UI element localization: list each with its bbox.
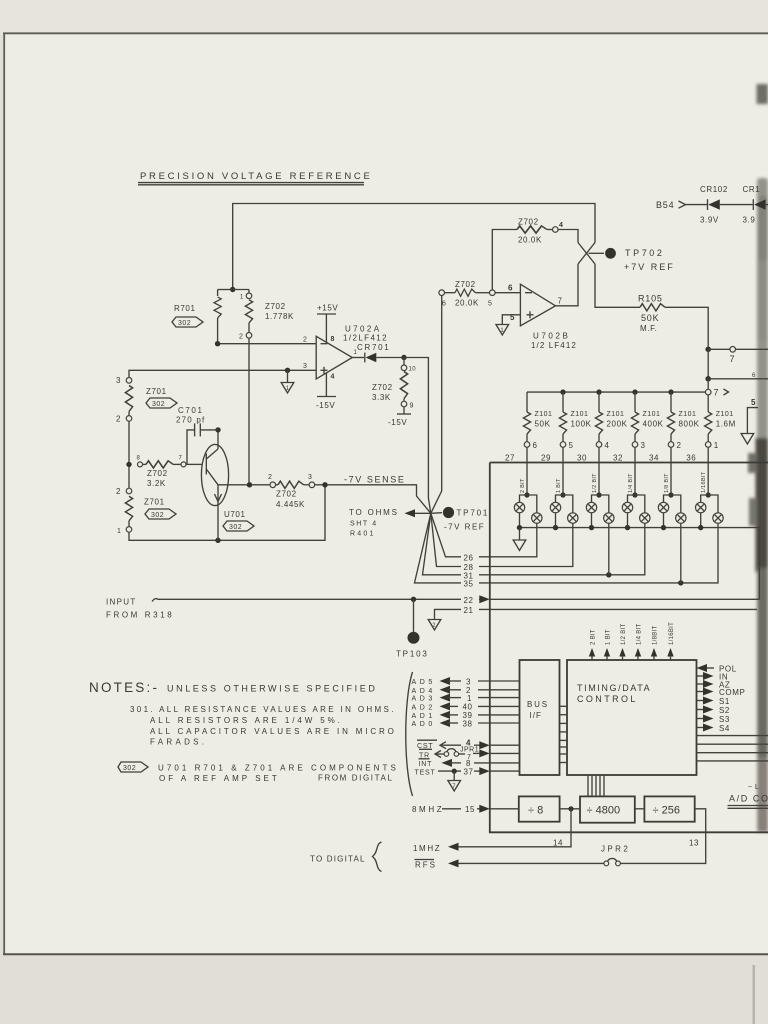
resistor Z101 1.6M	[707, 395, 709, 412]
junction node ch36	[706, 492, 711, 497]
svg-text:COMP: COMP	[719, 688, 745, 697]
pin COMP	[697, 691, 707, 693]
svg-text:S4: S4	[719, 724, 730, 733]
output bus lines right	[697, 735, 768, 737]
wire into box pin 29	[562, 447, 564, 495]
-15V below 3.3K	[403, 407, 405, 414]
svg-text:U701: U701	[224, 510, 246, 519]
svg-text:7: 7	[179, 456, 183, 462]
switch pair 400K	[628, 495, 636, 502]
op-amp U702B	[520, 284, 555, 326]
svg-text:1 BIT: 1 BIT	[556, 478, 562, 493]
node on plus input	[285, 368, 290, 373]
svg-text:Z701: Z701	[144, 498, 165, 507]
svg-text:8: 8	[137, 456, 141, 462]
svg-text:Z101: Z101	[679, 411, 697, 418]
svg-text:38: 38	[463, 719, 473, 728]
switch pair 100K	[556, 495, 564, 502]
flag 302 R701	[172, 317, 203, 327]
svg-text:÷ 256: ÷ 256	[653, 805, 680, 817]
svg-text:35: 35	[464, 579, 474, 588]
svg-text:~ L: ~ L	[748, 784, 759, 791]
svg-text:1: 1	[467, 694, 472, 703]
svg-text:7: 7	[452, 784, 456, 790]
svg-text:7: 7	[730, 354, 736, 364]
resistor Z101 800K	[670, 392, 672, 412]
svg-text:NOTES:-: NOTES:-	[89, 680, 159, 695]
pin 8 +15V U702A	[325, 314, 327, 343]
svg-text:1 BIT: 1 BIT	[606, 629, 612, 645]
svg-text:200K: 200K	[607, 420, 628, 429]
transistor U701	[201, 444, 228, 505]
wire top loop from R701 node to TP702	[233, 204, 595, 290]
right edge scan band	[748, 84, 768, 832]
svg-text:FROM R318: FROM R318	[106, 611, 174, 620]
svg-text:7: 7	[558, 297, 563, 306]
resistor Z101 100K	[562, 392, 564, 412]
wire into box pin 36	[707, 447, 709, 495]
svg-text:JPR2: JPR2	[601, 845, 630, 854]
svg-text:2: 2	[239, 334, 243, 341]
svg-text:1: 1	[240, 295, 244, 301]
wire -7V SENSE	[315, 485, 431, 514]
wire into box pin 27	[526, 447, 528, 495]
node junction R701 top	[230, 287, 235, 292]
svg-text:S3: S3	[719, 715, 730, 724]
resistor Z101 400K	[634, 392, 636, 412]
wire right at 378.8	[708, 378, 768, 380]
TIMING/DATA CONTROL box	[567, 660, 697, 775]
svg-text:+7V REF: +7V REF	[624, 262, 675, 272]
svg-text:CR102: CR102	[700, 185, 728, 194]
svg-text:8: 8	[331, 336, 335, 343]
brace FROM DIGITAL	[406, 672, 413, 796]
big box outline	[490, 462, 768, 464]
svg-text:400K: 400K	[643, 420, 664, 429]
junction node ch32	[632, 492, 637, 497]
svg-text:Z101: Z101	[535, 411, 553, 418]
svg-text:2: 2	[432, 623, 436, 629]
wire minus input U702A	[218, 343, 317, 345]
junction node ch34	[668, 492, 673, 497]
svg-text:34: 34	[649, 454, 659, 463]
svg-text:1/16BIT: 1/16BIT	[669, 622, 675, 645]
wire into box pin 32	[634, 447, 636, 495]
svg-text:-7V REF: -7V REF	[444, 523, 485, 532]
svg-text:÷ 8: ÷ 8	[528, 805, 543, 817]
fan wire to line 28	[431, 513, 461, 566]
svg-text:36: 36	[686, 454, 696, 463]
svg-text:FROM DIGITAL: FROM DIGITAL	[318, 774, 394, 783]
svg-text:3.2K: 3.2K	[147, 479, 166, 488]
svg-text:-15V: -15V	[316, 401, 335, 410]
wire rail down	[128, 421, 130, 488]
wire div4800 to div256	[635, 808, 645, 810]
switch pair 50K	[520, 495, 528, 502]
svg-text:5: 5	[488, 301, 492, 308]
wire into box pin 34	[670, 447, 672, 495]
svg-text:JPR1: JPR1	[460, 747, 479, 754]
diode CR701	[364, 353, 366, 363]
svg-text:CONTROL: CONTROL	[577, 694, 638, 704]
svg-text:1/2 BIT: 1/2 BIT	[621, 624, 627, 645]
svg-text:302: 302	[123, 765, 136, 772]
svg-text:3.3K: 3.3K	[372, 393, 391, 402]
ground on switch bus	[519, 528, 521, 540]
wire RFS output pin 13 via jumper JPR2	[621, 809, 706, 864]
resistor Z702 3.2K row	[138, 462, 143, 467]
divider by 256 box	[644, 796, 694, 821]
svg-text:4: 4	[605, 441, 610, 450]
svg-text:Z702: Z702	[147, 469, 168, 478]
svg-text:TIMING/DATA: TIMING/DATA	[577, 683, 651, 693]
svg-text:7: 7	[714, 388, 720, 398]
svg-text:29: 29	[541, 454, 551, 463]
pin IN	[697, 675, 707, 677]
junction node ch29	[560, 492, 565, 497]
svg-text:32: 32	[613, 454, 623, 463]
svg-text:Z101: Z101	[643, 411, 661, 418]
svg-text:5: 5	[751, 398, 756, 407]
svg-text:6: 6	[752, 373, 756, 379]
svg-text:2: 2	[677, 441, 682, 450]
svg-text:6: 6	[533, 441, 538, 450]
svg-text:RFS: RFS	[415, 861, 437, 870]
ground below plus input	[287, 370, 289, 382]
junction node ch30	[596, 492, 601, 497]
resistor Z702 20.0K input	[439, 290, 445, 296]
svg-text:Z702: Z702	[265, 302, 286, 311]
svg-text:PRECISION VOLTAGE REFERENCE: PRECISION VOLTAGE REFERENCE	[140, 171, 373, 182]
pin AZ	[697, 683, 707, 685]
svg-text:1/2 LF412: 1/2 LF412	[531, 341, 577, 350]
switch pair 200K	[592, 495, 600, 502]
svg-text:OF A REF AMP SET: OF A REF AMP SET	[159, 774, 280, 783]
svg-text:U702A: U702A	[345, 325, 381, 334]
svg-text:4: 4	[559, 222, 563, 229]
wire pin5 to ground	[502, 315, 520, 325]
svg-text:1: 1	[117, 528, 121, 535]
svg-text:TP702: TP702	[625, 248, 665, 258]
flag 302 Z701 lower	[145, 509, 176, 519]
flag 302 Z701 upper	[146, 398, 177, 408]
wire U702A output	[352, 357, 364, 359]
pin 4 -15V U702A	[325, 373, 327, 397]
pin S1	[697, 700, 707, 702]
wire plus input U702A	[130, 369, 317, 371]
svg-text:5: 5	[569, 441, 574, 450]
svg-text:30: 30	[577, 454, 587, 463]
svg-text:AD2: AD2	[412, 704, 436, 711]
svg-text:50K: 50K	[641, 313, 659, 323]
svg-text:Z101: Z101	[716, 411, 734, 418]
svg-text:3: 3	[641, 441, 646, 450]
resistor Z702 3.3K	[403, 358, 405, 366]
svg-text:800K: 800K	[679, 420, 700, 429]
wire emitter row	[218, 484, 270, 486]
wire div8 to div4800	[560, 808, 580, 810]
svg-text:3.9V: 3.9V	[700, 216, 719, 225]
svg-text:3: 3	[303, 363, 307, 370]
pin S4	[697, 727, 707, 729]
svg-text:AD1: AD1	[412, 713, 436, 720]
svg-text:CR701: CR701	[357, 343, 390, 352]
node R105 out lower	[707, 349, 709, 379]
svg-text:302: 302	[178, 320, 191, 327]
svg-text:R401: R401	[350, 531, 376, 538]
svg-text:1: 1	[286, 386, 290, 392]
svg-text:2: 2	[268, 474, 272, 481]
resistor R701	[217, 290, 219, 297]
svg-text:Z101: Z101	[607, 411, 625, 418]
svg-text:INPUT: INPUT	[106, 598, 137, 607]
svg-text:FARADS.: FARADS.	[150, 738, 207, 747]
wire INPUT FROM R318 / net 22	[152, 599, 461, 602]
svg-text:÷ 4800: ÷ 4800	[587, 805, 621, 817]
switch pair 1.6M	[701, 495, 709, 502]
svg-text:100K: 100K	[571, 420, 592, 429]
svg-text:R701: R701	[174, 304, 196, 313]
svg-text:1/8BIT: 1/8BIT	[653, 625, 659, 645]
svg-text:A/D CO: A/D CO	[729, 794, 768, 804]
svg-text:BUS: BUS	[527, 700, 549, 709]
svg-text:TO OHMS: TO OHMS	[349, 508, 399, 517]
svg-text:R105: R105	[638, 294, 663, 304]
svg-text:3: 3	[466, 677, 471, 686]
svg-text:6: 6	[508, 284, 513, 293]
wire X down to output	[556, 264, 579, 306]
pin POL	[704, 667, 714, 669]
svg-text:B54: B54	[656, 200, 674, 210]
svg-text:27: 27	[505, 454, 515, 463]
node R105 out upper	[705, 347, 711, 353]
wire node to R701 top	[218, 289, 233, 291]
svg-text:Z702: Z702	[276, 490, 297, 499]
svg-text:Z101: Z101	[571, 411, 589, 418]
divider by 4800 box	[580, 796, 635, 822]
svg-text:M.F.: M.F.	[640, 324, 658, 333]
wires TIMING to div4800	[588, 775, 604, 796]
fan wire to line 26	[431, 513, 461, 557]
svg-text:CR1: CR1	[743, 185, 761, 194]
svg-text:Z702: Z702	[372, 383, 393, 392]
divider by 8 box	[519, 796, 560, 821]
svg-text:6: 6	[442, 301, 446, 308]
svg-text:20.0K: 20.0K	[518, 236, 542, 245]
svg-text:1.778K: 1.778K	[265, 312, 294, 321]
svg-text:ALL CAPACITOR VALUES ARE IN MI: ALL CAPACITOR VALUES ARE IN MICRO	[150, 727, 397, 736]
resistor Z702 20.0K feedback	[492, 230, 517, 293]
test point TP701	[443, 507, 454, 518]
diode CR102	[707, 199, 709, 210]
flag 302 U701	[223, 521, 254, 531]
svg-text:26: 26	[464, 553, 474, 562]
svg-text:50K: 50K	[535, 420, 551, 429]
svg-text:21: 21	[464, 606, 474, 615]
svg-text:9: 9	[410, 403, 414, 410]
svg-text:1/16BIT: 1/16BIT	[701, 471, 707, 493]
svg-text:I/F: I/F	[530, 711, 542, 720]
wire 1MHZ output pin 14	[456, 809, 571, 847]
Z101 bus top wire	[527, 391, 705, 393]
svg-text:AD5: AD5	[412, 679, 436, 686]
svg-text:-7V SENSE: -7V SENSE	[344, 475, 405, 485]
svg-text:20.0K: 20.0K	[455, 299, 479, 308]
pin S3	[697, 718, 707, 720]
node TP702 X	[578, 243, 595, 265]
diode CR103	[752, 199, 754, 210]
svg-text:INT: INT	[419, 761, 433, 768]
svg-text:22: 22	[464, 596, 474, 605]
svg-text:2 BIT: 2 BIT	[520, 478, 526, 493]
op-amp U702A	[316, 336, 352, 379]
svg-text:1/8 BIT: 1/8 BIT	[664, 473, 670, 493]
svg-text:AD0: AD0	[412, 721, 436, 728]
svg-text:4.445K: 4.445K	[276, 500, 305, 509]
svg-text:AD4: AD4	[412, 688, 436, 695]
resistor Z101 200K	[598, 392, 600, 412]
terminal 7 of Z101 pack	[707, 379, 709, 390]
junction node ch27	[524, 492, 529, 497]
svg-text:SHT 4: SHT 4	[350, 521, 378, 528]
ground below TEST	[453, 771, 455, 780]
svg-text:1/2LF412: 1/2LF412	[343, 334, 388, 343]
svg-text:4: 4	[331, 374, 335, 381]
svg-text:302: 302	[229, 524, 242, 531]
svg-text:3.9: 3.9	[743, 216, 756, 225]
test point TP103	[413, 599, 415, 632]
resistor R105	[640, 304, 665, 311]
wire bottom loop	[129, 485, 325, 541]
svg-text:TP103: TP103	[396, 650, 429, 659]
svg-text:TO DIGITAL: TO DIGITAL	[310, 855, 366, 864]
wire Z702-2 down to emitter row	[248, 338, 250, 485]
svg-text:S1: S1	[719, 697, 730, 706]
test point TP702	[605, 248, 616, 259]
svg-text:C701: C701	[178, 406, 204, 415]
svg-text:2 BIT: 2 BIT	[591, 629, 597, 645]
svg-text:1.6M: 1.6M	[716, 420, 736, 429]
resistor Z701 upper	[126, 378, 132, 384]
pin S2	[697, 709, 707, 711]
svg-text:-15V: -15V	[388, 418, 407, 427]
svg-text:15: 15	[465, 805, 475, 814]
svg-text:14: 14	[553, 839, 563, 848]
wire X down to R105	[595, 264, 640, 307]
left rail corner to plus input	[128, 370, 131, 377]
svg-text:13: 13	[689, 839, 699, 848]
svg-text:Z702: Z702	[455, 280, 476, 289]
resistor Z702 1.778K	[246, 293, 252, 299]
fan wire to line 35	[415, 513, 462, 583]
svg-text:UNLESS OTHERWISE SPECIFIED: UNLESS OTHERWISE SPECIFIED	[167, 684, 377, 694]
svg-text:302: 302	[152, 401, 165, 408]
pin 5 stub with ground at right	[747, 408, 758, 434]
svg-text:AD3: AD3	[412, 696, 436, 703]
svg-text:2: 2	[116, 415, 121, 424]
svg-text:2: 2	[116, 487, 121, 496]
svg-text:U701 R701 & Z701 ARE COMPONEN: U701 R701 & Z701 ARE COMPONENTS	[158, 764, 399, 773]
BUS I/F box	[520, 660, 560, 775]
svg-text:3: 3	[116, 376, 121, 385]
svg-text:TEST: TEST	[415, 769, 436, 776]
switch pair 800K	[664, 495, 672, 502]
svg-text:3: 3	[308, 474, 312, 481]
svg-text:8MHZ: 8MHZ	[412, 805, 444, 814]
node CR701 output	[401, 355, 406, 360]
wire to terminal 7	[708, 348, 730, 350]
svg-text:2: 2	[303, 337, 307, 344]
fan wire to line 31	[423, 513, 462, 575]
svg-text:TP701: TP701	[457, 509, 490, 518]
wire B54 to diodes	[686, 204, 708, 206]
svg-text:1: 1	[714, 441, 719, 450]
svg-text:U702B: U702B	[533, 332, 570, 341]
switch bus	[520, 528, 760, 600]
svg-text:37: 37	[464, 768, 474, 777]
wire into box pin 30	[598, 447, 600, 495]
svg-text:1/4 BIT: 1/4 BIT	[637, 624, 643, 645]
svg-text:ALL RESISTORS ARE 1/4W 5%.: ALL RESISTORS ARE 1/4W 5%.	[150, 716, 343, 725]
svg-text:1: 1	[500, 328, 504, 334]
svg-text:301. ALL RESISTANCE VALUES ARE: 301. ALL RESISTANCE VALUES ARE IN OHMS.	[130, 705, 396, 714]
svg-text:Z701: Z701	[146, 387, 167, 396]
svg-text:+15V: +15V	[317, 304, 338, 313]
svg-text:1/2 BIT: 1/2 BIT	[592, 473, 598, 493]
node TP701 fan	[412, 512, 431, 514]
svg-text:1MHZ: 1MHZ	[413, 844, 441, 853]
wire 20.0K terminal 6 down to TP701	[431, 296, 442, 514]
capacitor C701	[215, 427, 220, 432]
resistor Z701 lower	[126, 488, 132, 494]
resistor Z101 50K	[526, 392, 528, 412]
svg-text:302: 302	[151, 512, 164, 519]
svg-text:270 pf: 270 pf	[176, 416, 205, 425]
wire node to Z702 1.778K pin1	[233, 289, 249, 291]
wire CR701 node to TP701	[404, 358, 431, 514]
bus rungs between BUS I/F and TIMING	[560, 706, 568, 762]
note 302 flag	[118, 762, 148, 772]
svg-text:S2: S2	[719, 706, 730, 715]
resistor Z702 4.445K	[270, 482, 276, 488]
svg-text:Z702: Z702	[518, 218, 539, 227]
svg-text:1/4 BIT: 1/4 BIT	[628, 473, 634, 493]
bit control arrows above TIMING box	[589, 622, 675, 660]
svg-text:10: 10	[409, 367, 417, 373]
